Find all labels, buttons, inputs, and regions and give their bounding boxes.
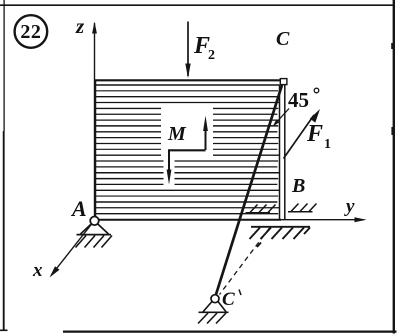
svg-text:C: C <box>222 289 235 310</box>
svg-text:y: y <box>344 196 355 217</box>
svg-text:x: x <box>32 260 43 281</box>
svg-text:z: z <box>75 14 85 38</box>
svg-text:C: C <box>276 28 290 50</box>
svg-text:M: M <box>167 123 187 145</box>
svg-text:2: 2 <box>208 48 215 63</box>
svg-text:1: 1 <box>324 137 331 152</box>
svg-text:F: F <box>306 121 323 147</box>
svg-text:A: A <box>70 196 87 221</box>
svg-text:45: 45 <box>288 88 309 112</box>
svg-text:22: 22 <box>20 21 41 43</box>
svg-text:B: B <box>291 175 305 197</box>
